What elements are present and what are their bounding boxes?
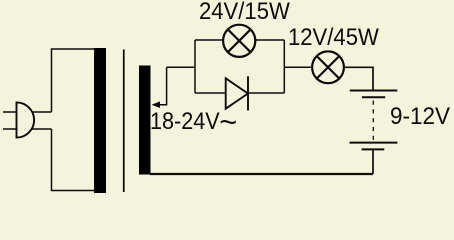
label 18-24V~ [150, 110, 232, 134]
battery B1 omitted-cells dashed link [372, 101, 374, 141]
wire: bottom plug prong + stub to transformer [3, 128, 52, 130]
wire: bottom branch to diode D1 [195, 92, 226, 94]
diode D1 [226, 76, 248, 110]
wire: lamp E1 to right edge [256, 39, 285, 41]
wire: top plug prong + stub to transformer [3, 111, 52, 113]
wire: parallel group to lamp E2 [284, 66, 312, 68]
wire: battery to bottom return [372, 149, 374, 174]
lamp E1 (24V/15W) [223, 25, 255, 57]
wire: primary loop left/top/bottom [52, 49, 101, 191]
wire: lamp E2 to battery [344, 67, 373, 90]
wire: top branch to lamp E1 [195, 39, 223, 41]
battery B1 bottom cell [350, 143, 398, 150]
node: parallel group left edge [194, 40, 196, 93]
wire: diode D1 to right edge [248, 92, 284, 94]
node: parallel group right edge [283, 40, 285, 93]
transformer T1 secondary winding [139, 66, 151, 175]
lamp E2 (12V/45W) [312, 51, 344, 83]
battery B1 (9-12V) top cell [350, 91, 398, 98]
wire: secondary tap to parallel group [167, 66, 195, 68]
label 9-12V [390, 105, 450, 129]
transformer T1 primary winding [94, 48, 106, 193]
mains plug P1 [17, 102, 35, 137]
label 12V/45W [288, 26, 379, 50]
transformer T1 core [123, 50, 125, 193]
tap arrow on secondary (18-24V~) [158, 67, 167, 104]
wire: bottom return to secondary winding [150, 173, 373, 175]
label 24V/15W [199, 0, 290, 24]
